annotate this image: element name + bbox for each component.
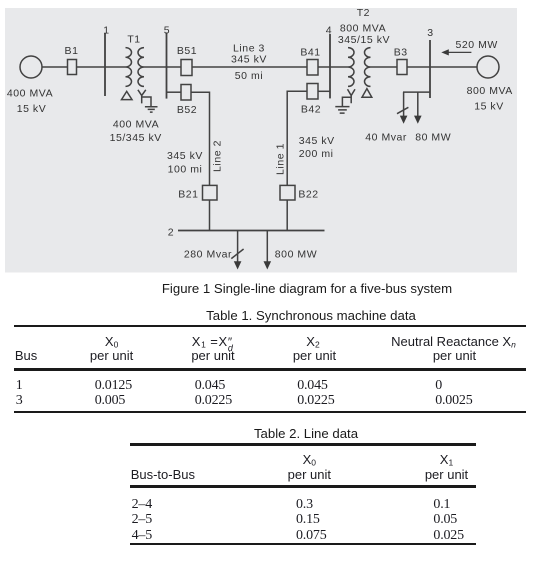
wire B21 to bus 2 (209, 200, 211, 231)
svg-text:B51: B51 (177, 45, 197, 57)
table 1 header rule (14, 368, 526, 371)
table 2 bottom border (130, 543, 476, 545)
table 2 top border (130, 443, 476, 445)
breaker B3 (397, 60, 407, 75)
svg-text:4: 4 (326, 25, 332, 37)
svg-text:T2: T2 (357, 7, 370, 19)
svg-text:15 kV: 15 kV (474, 100, 504, 112)
load arrow 800 MW shaft (266, 231, 268, 263)
svg-text:T1: T1 (127, 34, 140, 46)
load arrow 80 MW shaft (417, 92, 419, 116)
svg-text:100 mi: 100 mi (168, 164, 203, 176)
breaker B42 (307, 84, 318, 100)
load arrow 800 MW head (264, 261, 272, 269)
T1 ground (142, 97, 158, 112)
svg-text:15/345 kV: 15/345 kV (110, 132, 162, 144)
table 2 header rule (130, 485, 476, 488)
svg-text:B42: B42 (301, 104, 321, 116)
T2 wye symbol (348, 89, 356, 103)
svg-text:345 kV: 345 kV (167, 150, 203, 162)
wire B52 to Line 2 corner (191, 92, 210, 185)
wire G1 to B1 (42, 66, 68, 68)
table 1 header: Bus (15, 349, 37, 362)
table 2 row 2-5 (132, 513, 152, 527)
svg-text:B52: B52 (177, 104, 197, 116)
wire bus 5 to B52 (167, 91, 182, 93)
wire B42 to bus 4 (318, 90, 330, 92)
svg-text:Line 1: Line 1 (275, 143, 287, 175)
load arrow 280 Mvar head (234, 261, 242, 269)
bus 3 (429, 40, 431, 98)
svg-text:345/15 kV: 345/15 kV (338, 34, 390, 46)
breaker B22 (280, 185, 295, 200)
svg-text:80 MW: 80 MW (415, 132, 451, 144)
svg-text:1: 1 (103, 25, 109, 37)
svg-text:520 MW: 520 MW (455, 39, 497, 51)
svg-text:15 kV: 15 kV (17, 103, 47, 115)
transformer T1 secondary winding (138, 48, 144, 87)
svg-text:B22: B22 (298, 189, 318, 201)
transformer T1 primary winding (126, 48, 132, 87)
transformer T2 primary winding (348, 48, 354, 87)
table 1 top border (14, 325, 526, 327)
bus 2 (178, 230, 325, 232)
table 2 row 2-4 (132, 498, 152, 512)
table 1 header: Neutral Reactance Xn (391, 335, 516, 349)
generator G2 (right, 800 MVA 15 kV) (477, 56, 499, 78)
svg-text:B41: B41 (300, 47, 320, 59)
generator G1 (left, 400 MVA 15 kV) (20, 56, 42, 78)
wire B41 to T2 (318, 66, 348, 68)
table 2 header: X0 (259, 453, 359, 467)
figure caption (32, 282, 551, 295)
table 2 header: Bus-to-Bus (131, 468, 195, 481)
load arrow 40 Mvar head (400, 116, 408, 124)
load arrow 280 Mvar shaft (237, 231, 239, 263)
svg-text:40 Mvar: 40 Mvar (365, 132, 407, 144)
svg-text:B1: B1 (65, 45, 79, 57)
breaker B52 (181, 85, 191, 101)
svg-text:B21: B21 (178, 189, 198, 201)
520 MW flow arrow head (441, 49, 449, 55)
breaker B21 (203, 185, 218, 200)
svg-text:200 mi: 200 mi (299, 148, 334, 160)
svg-text:5: 5 (164, 25, 170, 37)
svg-text:280 Mvar: 280 Mvar (184, 249, 232, 261)
diagram background panel (5, 8, 517, 273)
wire Line 1 (corner to B42) (287, 91, 307, 185)
T1 delta symbol (122, 91, 133, 99)
table 1 row bus 3 (16, 394, 23, 408)
bus 5 (166, 33, 168, 99)
load arrow 280 Mvar slash (231, 249, 243, 259)
table 1 title (36, 309, 551, 322)
table 1 header: X2 (263, 335, 363, 349)
svg-text:800 MVA: 800 MVA (340, 23, 386, 35)
T2 delta symbol (362, 89, 372, 98)
svg-text:Line 2: Line 2 (211, 140, 223, 172)
wire Line 3 (B51 to B41) (192, 66, 307, 68)
svg-text:345 kV: 345 kV (299, 135, 335, 147)
wire B22 to bus 2 (286, 200, 288, 231)
svg-text:400 MVA: 400 MVA (113, 119, 159, 131)
svg-text:B3: B3 (394, 47, 408, 59)
T1 wye symbol (138, 90, 146, 104)
svg-text:800 MW: 800 MW (275, 249, 317, 261)
table 1 header: X0 (62, 335, 162, 349)
load arrow 40 Mvar shaft (403, 92, 405, 116)
table 1 row bus 1 (16, 379, 23, 393)
svg-text:50 mi: 50 mi (235, 70, 263, 82)
breaker B41 (307, 60, 318, 76)
520 MW flow arrow shaft (448, 51, 472, 53)
bus 1 (104, 33, 106, 96)
svg-text:800 MVA: 800 MVA (467, 85, 513, 97)
wire T1 to B51 (144, 66, 181, 68)
wire B3 to G2 (407, 66, 477, 68)
table 2 title (31, 427, 551, 440)
breaker B51 (181, 60, 192, 76)
svg-text:345 kV: 345 kV (231, 54, 267, 66)
table 1 bottom border (14, 411, 526, 413)
figure: single-line diagram (0, 0, 551, 273)
load arrow 80 MW head (414, 116, 422, 124)
transformer T2 secondary winding (365, 48, 371, 87)
bus 3 load tap wire (403, 91, 430, 93)
breaker B1 (68, 60, 77, 75)
table 2 header: X1 (397, 453, 497, 467)
svg-text:400 MVA: 400 MVA (7, 88, 53, 100)
bus 4 (329, 34, 331, 98)
table 1 header: X1 = Xd'' (163, 335, 263, 351)
wire T2 to B3 (371, 66, 398, 68)
table 2 row 4-5 (132, 529, 152, 543)
svg-text:2: 2 (168, 226, 174, 238)
load arrow 40 Mvar slash (397, 107, 408, 113)
T2 ground (335, 97, 351, 113)
wire B1 to T1 (77, 66, 126, 68)
svg-text:3: 3 (427, 27, 433, 39)
